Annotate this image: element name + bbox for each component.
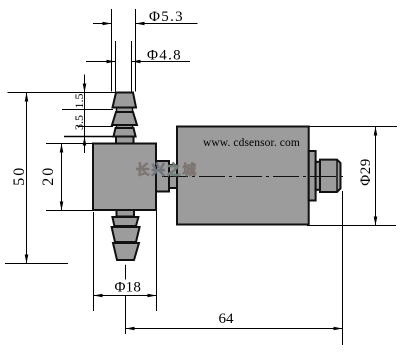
dim Φ18 line [94,295,157,297]
valve block body [93,144,156,211]
bottom barb cone A [112,217,138,226]
dim 20 line [61,144,63,211]
dim Φ5.3 arrow left [103,22,112,26]
dim Φ18 arrow left [94,294,103,298]
svg-text:20: 20 [40,166,57,186]
dim Φ29 line [375,127,377,226]
svg-text:Φ18: Φ18 [115,280,142,296]
dim 64 line [126,328,343,330]
dim Φ4.8 leader right [132,61,191,63]
top barb cone 1 (tip) [113,93,137,108]
pressure port thread C [320,160,341,192]
chain dim line (1.5/3.5) [84,75,86,154]
pressure port groove B [316,162,320,190]
neck step N2 between block and cylinder [169,165,177,188]
dim 50 bottom extension line [5,263,68,265]
dim 50 line [26,93,28,264]
dim Φ29 arrow top [374,127,378,136]
dim Φ4.8 arrow right [132,60,141,64]
dim Φ5.3 extension line left [111,9,113,92]
svg-text:Φ5.3: Φ5.3 [149,9,184,25]
svg-text:1.5: 1.5 [72,94,86,109]
bottom barb cone C (tip) [113,243,139,260]
dim Φ18 extension line right [156,211,158,311]
bottom barb cone B [112,227,140,242]
dim Φ18 extension line left [93,212,95,311]
top barb cone 2 [112,112,137,125]
svg-text:Φ4.8: Φ4.8 [147,48,182,64]
chain arrow down at top [83,84,87,93]
bottom barb stem [117,210,135,217]
dim Φ4.8 extension line right [131,41,133,92]
dim Φ18 arrow right [148,294,157,298]
svg-text:Φ29: Φ29 [358,158,374,185]
dim 50 top extension line [8,92,117,94]
dim 20 bottom extension line [46,210,93,212]
cylinder body (sensor housing) [177,127,309,225]
neck step N1 between block and cylinder [156,161,169,192]
chain arrow up at bottom [83,137,87,146]
dim Φ5.3 arrow right [136,22,145,26]
svg-text:长兴之城: 长兴之城 [136,162,198,178]
dim Φ4.8 leader left [86,61,116,63]
dim 50 arrow bottom [25,255,29,264]
dim 64 right extension line [342,191,344,345]
dim Φ5.3 extension line right [135,9,137,92]
top barb neck [117,93,133,144]
dim 64 arrow left [126,327,135,331]
pressure port washer A [309,151,316,201]
dim 20 arrow top [60,144,64,153]
dim Φ4.8 extension line left [115,41,117,92]
top barb cone 3 [114,128,136,137]
barb center mark upper [125,265,127,280]
dim Φ29 top extension line [309,126,397,128]
dim Φ5.3 leader right [136,23,198,25]
dim 50 arrow top [25,93,29,102]
dim 20 arrow bottom [60,202,64,211]
svg-text:www. cdsensor. com: www. cdsensor. com [203,137,300,149]
svg-text:50: 50 [11,166,28,186]
dim Φ5.3 leader left [93,23,112,25]
svg-text:3.5: 3.5 [72,115,86,130]
centerline [162,176,347,178]
svg-text:64: 64 [219,311,235,327]
top barb stem [116,137,134,144]
dim Φ4.8 arrow left [107,60,116,64]
thread chamfer line [336,160,338,192]
chain extension line y126.5 [78,126,114,128]
dim Φ29 arrow bottom [374,217,378,226]
chain extension line y109 [62,109,113,111]
chain extension line y136.8 [64,136,113,138]
dim Φ29 bottom extension line [307,225,396,227]
barb center mark lower / dim 64 left extension [125,295,127,334]
dim 20 top extension line [46,143,93,145]
dim 64 arrow right [334,327,343,331]
